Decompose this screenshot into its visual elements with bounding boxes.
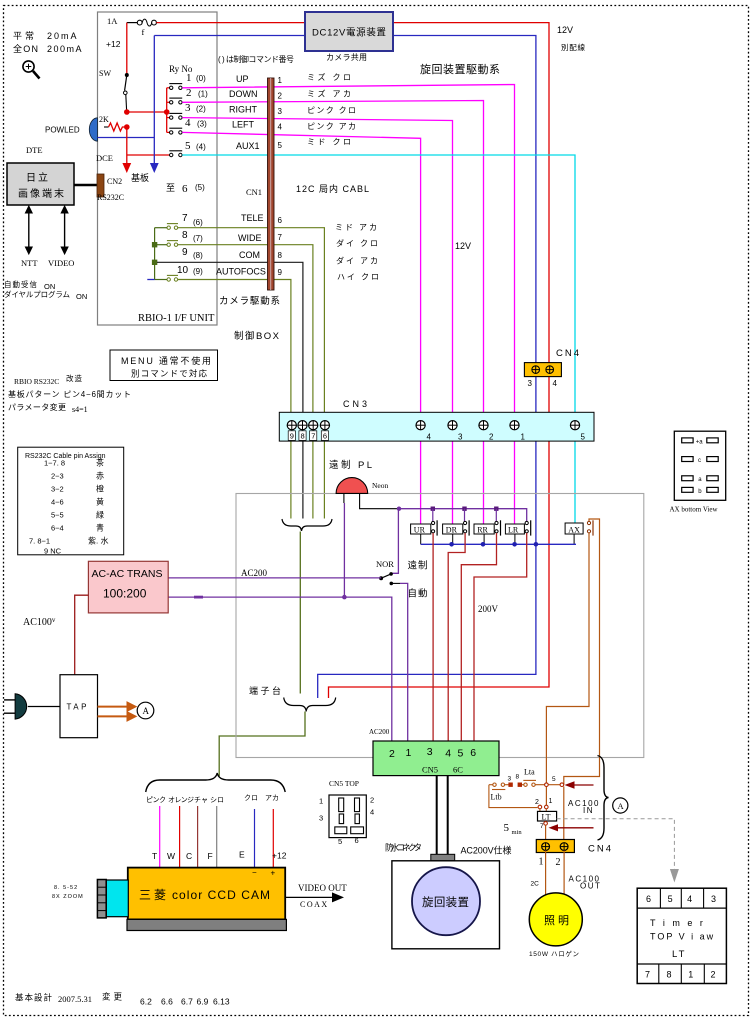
svg-text:10: 10 xyxy=(177,265,189,276)
relay UR xyxy=(411,524,431,534)
svg-text:NTT: NTT xyxy=(21,258,38,268)
svg-text:緑: 緑 xyxy=(96,510,104,520)
svg-text:20mA: 20mA xyxy=(47,31,79,41)
svg-text:WIDE: WIDE xyxy=(238,233,262,243)
relay DR xyxy=(443,524,463,534)
svg-text:8: 8 xyxy=(516,774,520,781)
svg-text:F: F xyxy=(208,851,213,861)
svg-text:5: 5 xyxy=(278,141,283,150)
wire purple trans bottom to CN5 pin2 xyxy=(168,597,392,741)
svg-text:制御BOX: 制御BOX xyxy=(234,330,280,342)
brace AC100 xyxy=(598,756,609,841)
svg-text:防水コネクタ: 防水コネクタ xyxy=(385,843,422,853)
svg-text:8: 8 xyxy=(667,970,672,980)
svg-text:s4=1: s4=1 xyxy=(72,405,88,414)
svg-text:2007.5.31: 2007.5.31 xyxy=(58,994,92,1004)
brace under CN3 green wires xyxy=(282,519,332,531)
svg-text:(8): (8) xyxy=(193,251,203,260)
relay RR xyxy=(474,524,494,534)
svg-text:7: 7 xyxy=(540,823,544,830)
wire sienna AX top lead xyxy=(564,519,600,785)
wire purple auto to CN5 pin1 xyxy=(400,583,408,741)
AX bottom view box xyxy=(674,431,725,500)
svg-text:CN5 TOP: CN5 TOP xyxy=(329,779,359,788)
svg-text:AC200V仕様: AC200V仕様 xyxy=(461,845,512,856)
wire AUX1 cyan xyxy=(182,155,575,523)
svg-text:7: 7 xyxy=(182,213,188,224)
svg-text:全ON: 全ON xyxy=(13,43,38,54)
svg-text:カメラ駆動系: カメラ駆動系 xyxy=(219,296,280,307)
wire 200V DR drop xyxy=(448,533,465,741)
svg-text:3: 3 xyxy=(319,814,323,823)
svg-text:ピンク クロ: ピンク クロ xyxy=(307,106,357,115)
tap box xyxy=(60,675,98,738)
svg-text:4−6: 4−6 xyxy=(51,498,64,507)
LT pins 2,1 xyxy=(538,805,542,809)
wire LEFT magenta xyxy=(182,132,420,523)
board arrow blue xyxy=(150,163,159,173)
svg-text:(1): (1) xyxy=(198,90,208,99)
svg-text:6: 6 xyxy=(470,747,476,759)
connector CN3 bar xyxy=(279,412,594,441)
svg-text:3: 3 xyxy=(528,379,533,388)
relay feed bus red xyxy=(166,88,168,133)
camera wires xyxy=(159,806,161,868)
svg-text:自動受信: 自動受信 xyxy=(4,279,38,289)
svg-text:4: 4 xyxy=(185,117,191,129)
svg-text:CN3: CN3 xyxy=(343,399,370,409)
svg-text:ピンク アカ: ピンク アカ xyxy=(307,122,357,131)
svg-text:至: 至 xyxy=(166,183,175,193)
relay AX xyxy=(565,523,583,534)
svg-text:C: C xyxy=(186,851,192,861)
wire to CN2 xyxy=(74,184,98,187)
svg-text:基板パターン ピン4−6間カット: 基板パターン ピン4−6間カット xyxy=(8,389,131,399)
svg-text:RR: RR xyxy=(477,525,488,534)
relay LR xyxy=(505,524,524,534)
svg-text:6−4: 6−4 xyxy=(51,524,64,533)
svg-text:2: 2 xyxy=(489,433,494,442)
svg-text:8: 8 xyxy=(182,230,188,241)
svg-text:7. 8−1: 7. 8−1 xyxy=(29,537,50,546)
svg-text:旋回装置: 旋回装置 xyxy=(422,895,469,909)
svg-text:茶: 茶 xyxy=(96,458,104,468)
svg-text:6: 6 xyxy=(646,894,651,904)
svg-text:IN: IN xyxy=(583,806,594,815)
svg-text:1: 1 xyxy=(539,857,544,868)
brace terminal block xyxy=(284,698,336,712)
current note text xyxy=(13,30,83,54)
svg-text:+a: +a xyxy=(696,440,704,446)
svg-text:3: 3 xyxy=(185,102,191,114)
svg-text:5: 5 xyxy=(504,822,510,834)
svg-text:5−5: 5−5 xyxy=(51,511,64,520)
svg-text:LEFT: LEFT xyxy=(232,120,255,130)
timer top view box xyxy=(637,888,726,983)
svg-text:9: 9 xyxy=(278,268,283,277)
enclosure control box xyxy=(236,494,644,758)
cable to swivel unit xyxy=(436,776,438,855)
svg-text:4: 4 xyxy=(370,808,374,817)
svg-text:7: 7 xyxy=(311,432,315,441)
wire TELE olive xyxy=(178,228,325,519)
svg-text:RIGHT: RIGHT xyxy=(229,105,258,115)
svg-text:自動: 自動 xyxy=(408,588,428,600)
svg-text:橙: 橙 xyxy=(96,484,104,494)
svg-text:(2): (2) xyxy=(196,105,206,114)
wire purple remote control line xyxy=(399,509,527,522)
wire COM black xyxy=(157,262,303,518)
svg-text:2: 2 xyxy=(535,799,539,806)
svg-text:ダイ アカ: ダイ アカ xyxy=(336,256,379,266)
svg-text:DR: DR xyxy=(446,525,458,534)
wire sienna AX bottom lead xyxy=(546,533,589,805)
svg-text:8: 8 xyxy=(301,432,305,441)
svg-text:VIDEO OUT: VIDEO OUT xyxy=(298,883,347,893)
svg-text:1: 1 xyxy=(406,747,412,759)
svg-text:color CCD CAM: color CCD CAM xyxy=(172,888,270,902)
svg-text:6.7: 6.7 xyxy=(181,997,193,1007)
svg-text:1: 1 xyxy=(688,970,693,980)
svg-text:CN4: CN4 xyxy=(556,348,581,359)
svg-text:AC-AC TRANS: AC-AC TRANS xyxy=(92,568,163,580)
board arrow red xyxy=(126,127,128,163)
svg-text:ON: ON xyxy=(76,292,87,301)
wire sienna row node to CN4 pin2 xyxy=(563,787,565,843)
svg-text:SW: SW xyxy=(99,69,111,78)
svg-text:(6): (6) xyxy=(193,218,203,227)
wire sienna Ltb to LT pin2 xyxy=(489,785,538,808)
svg-text:3: 3 xyxy=(278,107,283,116)
wire crimson AC100 to TAP xyxy=(75,595,89,675)
svg-text:12V: 12V xyxy=(455,241,471,251)
svg-text:UP: UP xyxy=(236,74,249,84)
relay contacts rows 7-10 xyxy=(167,224,178,282)
bus blue 12V return xyxy=(421,543,576,545)
wire RIGHT magenta xyxy=(182,118,452,524)
svg-text:5: 5 xyxy=(668,894,673,904)
svg-text:200mA: 200mA xyxy=(47,44,83,54)
wire 12V+ red: fuse to DC12V PSU, right side down to CN4 pin4, to terminal block xyxy=(156,23,549,698)
svg-text:赤: 赤 xyxy=(96,472,104,481)
svg-text:5: 5 xyxy=(581,433,586,442)
svg-text:(9): (9) xyxy=(193,267,203,276)
svg-text:3: 3 xyxy=(508,776,512,783)
svg-text:A: A xyxy=(618,801,625,811)
wire 200V LR drop xyxy=(474,533,527,741)
svg-text:3−2: 3−2 xyxy=(51,485,64,494)
svg-text:(5): (5) xyxy=(195,183,205,192)
svg-text:AC200: AC200 xyxy=(241,568,268,578)
svg-text:改造: 改造 xyxy=(66,373,83,383)
svg-text:AUTOFOCS: AUTOFOCS xyxy=(216,267,266,277)
svg-text:5: 5 xyxy=(338,837,342,846)
circle A right xyxy=(613,798,628,813)
arrow AC100 in xyxy=(565,781,575,788)
svg-text:min: min xyxy=(512,829,523,836)
svg-text:別コマンドで対応: 別コマンドで対応 xyxy=(131,369,207,379)
wire 200V UR drop xyxy=(432,533,434,741)
svg-text:紫. 水: 紫. 水 xyxy=(88,536,108,546)
svg-text:2: 2 xyxy=(186,87,192,99)
wires CN4 to lamp xyxy=(545,851,547,895)
svg-text:CN4: CN4 xyxy=(588,844,613,855)
svg-text:6: 6 xyxy=(323,432,327,441)
svg-text:7: 7 xyxy=(278,233,283,242)
red junction node xyxy=(124,109,130,115)
svg-text:RBIO-1 I/F UNIT: RBIO-1 I/F UNIT xyxy=(138,313,215,324)
svg-text:COAX: COAX xyxy=(300,900,329,909)
LT pin 7 xyxy=(544,822,548,826)
svg-text:4: 4 xyxy=(553,379,558,388)
svg-text:6.9: 6.9 xyxy=(197,997,209,1007)
svg-text:Lta: Lta xyxy=(524,768,535,777)
svg-text:Neon: Neon xyxy=(372,481,388,490)
svg-text:ミズ アカ: ミズ アカ xyxy=(307,89,352,99)
svg-text:6C: 6C xyxy=(453,765,463,775)
svg-text:基板: 基板 xyxy=(131,172,149,183)
svg-text:1−7. 8: 1−7. 8 xyxy=(44,459,65,468)
svg-text:1: 1 xyxy=(278,76,283,85)
svg-text:ダイ クロ: ダイ クロ xyxy=(336,238,379,248)
svg-text:CN5: CN5 xyxy=(422,765,438,775)
svg-text:6.2: 6.2 xyxy=(140,997,152,1007)
svg-text:8X ZOOM: 8X ZOOM xyxy=(52,894,84,900)
svg-text:(3): (3) xyxy=(197,120,207,129)
svg-text:8: 8 xyxy=(278,251,283,260)
contact RR xyxy=(495,520,501,535)
AC plug xyxy=(15,694,27,719)
svg-text:(7): (7) xyxy=(193,234,203,243)
svg-text:TOP V i aw: TOP V i aw xyxy=(650,932,715,942)
svg-text:DC12V電源装置: DC12V電源装置 xyxy=(312,27,386,39)
LED POWLED xyxy=(89,118,97,141)
svg-text:DOWN: DOWN xyxy=(229,89,258,99)
svg-text:1A: 1A xyxy=(107,16,118,26)
svg-text:3: 3 xyxy=(427,746,433,758)
CN1 pin numbers xyxy=(278,76,283,277)
svg-text:アカ: アカ xyxy=(265,794,279,802)
RS232C cable pin assign box xyxy=(18,447,124,555)
svg-text:DCE: DCE xyxy=(96,153,113,163)
svg-text:AC100v: AC100v xyxy=(23,616,56,628)
svg-text:ハイ クロ: ハイ クロ xyxy=(337,273,380,282)
MENU note box xyxy=(110,350,218,381)
bus olive rows7-10 xyxy=(154,228,156,280)
circle A left xyxy=(137,702,154,719)
svg-text:3: 3 xyxy=(458,433,463,442)
camera lens xyxy=(106,880,128,917)
contact DR xyxy=(464,520,470,535)
svg-text:1: 1 xyxy=(319,797,323,806)
svg-text:+12: +12 xyxy=(272,851,287,861)
relay numbers 7-10 xyxy=(177,213,189,276)
svg-text:AC200: AC200 xyxy=(369,728,390,736)
svg-text:別配線: 別配線 xyxy=(561,42,586,52)
connector CN2 xyxy=(97,174,104,197)
camera wire labels xyxy=(146,794,279,804)
camera body xyxy=(128,868,285,920)
DC12V power supply box xyxy=(305,12,393,51)
wire red to relay bus xyxy=(127,111,167,113)
svg-text:1: 1 xyxy=(186,72,192,84)
svg-text:(0): (0) xyxy=(196,74,206,83)
svg-text:ピンク: ピンク xyxy=(146,796,166,804)
svg-text:Ltb: Ltb xyxy=(491,793,502,802)
svg-text:1: 1 xyxy=(521,433,526,442)
svg-text:+12: +12 xyxy=(106,39,121,49)
wire UP magenta xyxy=(182,85,514,524)
fuse f xyxy=(127,19,157,37)
svg-text:2K: 2K xyxy=(99,115,109,124)
svg-text:CN1: CN1 xyxy=(246,187,262,197)
svg-text:2: 2 xyxy=(556,857,561,868)
svg-text:2: 2 xyxy=(370,796,374,805)
NTT arrow xyxy=(25,206,32,254)
svg-text:パラメータ変更: パラメータ変更 xyxy=(8,402,66,412)
wire DOWN magenta xyxy=(182,101,483,524)
svg-text:T i m e r: T i m e r xyxy=(650,918,705,928)
wire colour labels xyxy=(307,72,380,282)
svg-text:3: 3 xyxy=(711,894,716,904)
svg-text:ダイヤルプログラム: ダイヤルプログラム xyxy=(4,289,70,299)
wire WIDE olive xyxy=(178,245,313,519)
svg-text:4: 4 xyxy=(278,123,283,132)
svg-text:2: 2 xyxy=(389,748,395,760)
svg-text:AX: AX xyxy=(568,525,580,534)
DC12V PSU wires handled above; PSU box xyxy=(154,36,536,545)
svg-text:シロ: シロ xyxy=(210,797,224,804)
timer contact row Lta/Ltb xyxy=(489,783,562,786)
wire red +12 internal xyxy=(126,23,128,74)
svg-text:黄: 黄 xyxy=(96,497,104,507)
svg-text:ミド クロ: ミド クロ xyxy=(307,138,352,147)
svg-text:NOR: NOR xyxy=(376,559,394,569)
switch SW xyxy=(99,69,129,110)
wire olive to terminal block xyxy=(299,532,301,694)
svg-text:5: 5 xyxy=(552,776,556,783)
magnifier icon xyxy=(23,61,40,79)
svg-text:7: 7 xyxy=(645,970,650,980)
swivel unit box xyxy=(392,861,500,949)
svg-text:4: 4 xyxy=(427,433,432,442)
svg-text:クロ: クロ xyxy=(244,794,258,802)
svg-text:150W ハロゲン: 150W ハロゲン xyxy=(529,949,579,958)
wire purple PL down xyxy=(343,503,345,597)
svg-text:2C: 2C xyxy=(531,881,540,888)
wire olive terminal block to camera xyxy=(219,712,305,777)
svg-text:オレンジ: オレンジ xyxy=(168,796,194,804)
svg-text:旋回装置駆動系: 旋回装置駆動系 xyxy=(420,62,500,76)
timer LT box xyxy=(538,811,557,821)
lamp shomei xyxy=(529,893,582,946)
svg-text:+: + xyxy=(271,869,276,878)
svg-text:OUT: OUT xyxy=(580,882,601,891)
brace camera wires xyxy=(146,773,286,792)
svg-text:DTE: DTE xyxy=(26,145,43,155)
svg-text:5: 5 xyxy=(458,748,464,760)
wire 12V- blue from PSU down to board arrow xyxy=(153,36,155,164)
relay output labels xyxy=(216,74,266,277)
svg-text:COM: COM xyxy=(239,250,260,260)
svg-text:6: 6 xyxy=(278,216,283,225)
dashed pointer to timer view xyxy=(557,819,675,869)
wire AUTOFOCS olive xyxy=(178,280,291,519)
svg-text:ミド アカ: ミド アカ xyxy=(335,223,378,232)
CN3 right pin numbers xyxy=(427,433,586,442)
svg-text:f: f xyxy=(142,27,145,37)
wire purple trans top to NOR common xyxy=(168,577,381,579)
relay coil bottom leads xyxy=(421,534,574,544)
svg-text:E: E xyxy=(239,850,245,860)
svg-text:12C 局内 CABL: 12C 局内 CABL xyxy=(296,183,369,194)
blue stub row10 xyxy=(147,279,154,281)
transformer AC-AC TRANS xyxy=(88,561,168,613)
svg-text:2: 2 xyxy=(278,92,283,101)
camera pin letters xyxy=(152,850,287,862)
contact UR xyxy=(432,520,438,535)
svg-text:青: 青 xyxy=(96,523,104,533)
svg-text:9: 9 xyxy=(290,432,294,441)
resistor 2K xyxy=(99,115,125,131)
svg-text:(4): (4) xyxy=(196,143,206,152)
svg-text:LT: LT xyxy=(542,813,551,822)
waterproof connector xyxy=(431,854,455,861)
CN3 wires crossing drawn above; pins xyxy=(287,421,579,430)
svg-text:LR: LR xyxy=(508,525,519,534)
connector CN4 bottom xyxy=(536,840,574,853)
svg-text:100:200: 100:200 xyxy=(103,587,147,601)
svg-text:4: 4 xyxy=(445,748,451,760)
relay contacts rows 1-5 xyxy=(169,84,182,157)
svg-text:UR: UR xyxy=(414,525,426,534)
svg-text:12V: 12V xyxy=(557,25,573,35)
svg-text:基本設計: 基本設計 xyxy=(15,993,52,1003)
junction nodes timer row xyxy=(545,783,549,787)
Hitachi terminal box xyxy=(7,163,74,205)
connector CN5 xyxy=(373,741,499,776)
svg-text:c: c xyxy=(698,458,701,464)
wire red AUX1 feed xyxy=(127,154,170,156)
arrow AC100 out xyxy=(549,824,559,831)
PL leads xyxy=(343,493,345,503)
svg-text:4: 4 xyxy=(687,894,692,904)
svg-text:AX bottom View: AX bottom View xyxy=(670,506,719,514)
svg-text:TELE: TELE xyxy=(241,213,264,223)
svg-text:9: 9 xyxy=(182,247,188,258)
svg-text:6.6: 6.6 xyxy=(161,997,173,1007)
svg-text:RS232C Cable pin Assign: RS232C Cable pin Assign xyxy=(25,453,106,460)
contact LR xyxy=(525,520,531,535)
VIDEO arrow xyxy=(61,206,68,254)
svg-text:端子台: 端子台 xyxy=(249,685,281,696)
svg-text:( ) は制御コマンド番号: ( ) は制御コマンド番号 xyxy=(218,54,294,64)
connector CN4 top xyxy=(524,363,561,377)
svg-text:チャ: チャ xyxy=(194,796,208,804)
svg-text:AUX1: AUX1 xyxy=(236,141,260,151)
svg-text:VIDEO: VIDEO xyxy=(48,258,74,268)
TAP output arrows xyxy=(98,702,137,721)
svg-text:9 NC: 9 NC xyxy=(44,547,62,556)
svg-text:A: A xyxy=(143,706,150,716)
svg-text:POWLED: POWLED xyxy=(45,126,80,135)
svg-text:カメラ共用: カメラ共用 xyxy=(326,53,367,62)
relay numbers 1-5 xyxy=(185,72,192,152)
svg-text:2−3: 2−3 xyxy=(51,472,64,481)
svg-text:W: W xyxy=(167,851,175,861)
RBIO-1 I/F UNIT box xyxy=(98,12,218,325)
blue continues to terminal block xyxy=(318,544,536,698)
